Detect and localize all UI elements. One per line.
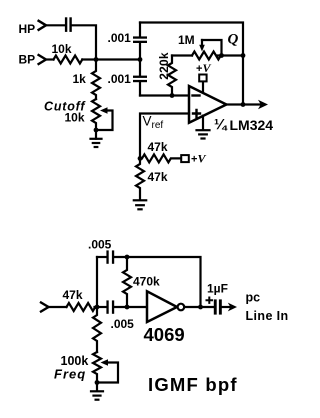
svg-text:1k: 1k	[73, 72, 87, 86]
wire to output arrow	[222, 306, 230, 308]
junction 1M / feedback	[241, 53, 246, 58]
wire top feedback	[114, 257, 200, 307]
resistor 47k (input)	[67, 303, 96, 311]
capacitor .001 (bottom)	[133, 76, 147, 83]
svg-text:Freq: Freq	[54, 367, 86, 382]
svg-text:+: +	[196, 63, 202, 75]
resistor 470k	[123, 257, 131, 307]
svg-text:220k: 220k	[157, 52, 171, 80]
wire inverter output	[185, 306, 214, 308]
node Vref label	[143, 114, 164, 132]
ground (Freq pot)	[91, 391, 103, 399]
ground (divider)	[134, 200, 146, 209]
ground (Cutoff pot)	[91, 139, 102, 147]
potentiometer 100k Freq (lower body to ground)	[93, 352, 101, 390]
resistor 1k	[92, 60, 100, 100]
node pc Line In	[246, 290, 289, 323]
capacitor 1uF (polarized)	[207, 282, 228, 296]
svg-text:IGMF bpf: IGMF bpf	[148, 374, 238, 395]
svg-text:47k: 47k	[63, 288, 83, 302]
capacitor HP series (no value)	[65, 17, 72, 32]
resistor 47k (to ground)	[136, 158, 144, 199]
svg-text:HP: HP	[19, 22, 36, 36]
node HP label	[19, 22, 36, 36]
junction wiper tie	[219, 53, 224, 58]
HP input arrow	[39, 21, 46, 30]
wire to 47k	[49, 306, 67, 308]
svg-text:Q: Q	[228, 32, 239, 48]
svg-text:+: +	[191, 153, 197, 165]
svg-text:Line In: Line In	[246, 309, 289, 323]
capacitor .005 (top, feedback)	[106, 250, 114, 263]
potentiometer 1M	[192, 52, 221, 60]
svg-text:10k: 10k	[65, 111, 85, 125]
wire feedback branch (left vertical)	[96, 257, 98, 307]
node BP label	[19, 53, 36, 67]
wire cap to corner, down to BP node	[72, 25, 96, 59]
wire non-inverting input / Vref	[140, 114, 189, 159]
junction pot bottom	[94, 128, 99, 133]
potentiometer Cutoff 10k	[92, 99, 100, 139]
wire to top cap	[97, 256, 106, 258]
svg-text:.005: .005	[111, 317, 135, 331]
capacitor .005 (bottom, series)	[106, 300, 114, 313]
wiper arrow 1M	[202, 40, 222, 56]
svg-text:V: V	[143, 114, 152, 129]
wire 220k to 1M pot	[172, 54, 192, 56]
ground (op-amp)	[202, 116, 204, 130]
capacitor .001 (top)	[133, 36, 147, 43]
svg-text:.005: .005	[88, 238, 112, 252]
svg-text:¼: ¼	[214, 117, 228, 134]
svg-text:pc: pc	[246, 290, 261, 304]
svg-text:V: V	[203, 61, 212, 75]
svg-text:1µF: 1µF	[207, 282, 228, 296]
inverter U2 4069	[147, 291, 177, 322]
op-amp U1 1/4 LM324	[189, 86, 226, 123]
wire to input junction and cap	[95, 306, 107, 308]
node junction HP/BP	[94, 57, 99, 62]
resistor 220k	[168, 56, 176, 96]
wire caps column	[139, 23, 141, 96]
resistor 10k	[54, 56, 83, 64]
+V supply (divider)	[181, 155, 189, 162]
wiper arrow Cutoff	[96, 111, 113, 131]
junction 220k / inverting input	[170, 93, 175, 98]
wire to input node junction	[82, 58, 140, 60]
svg-text:.001: .001	[108, 72, 132, 86]
svg-text:47k: 47k	[148, 140, 168, 154]
svg-text:V: V	[198, 152, 207, 166]
potentiometer 100k Freq (upper resistor body)	[93, 307, 101, 352]
svg-text:.001: .001	[108, 31, 132, 45]
svg-text:BP: BP	[19, 53, 36, 67]
resistor 47k (to +V)	[142, 154, 181, 162]
input arrow (bottom)	[41, 303, 49, 312]
wire BP to resistor	[46, 58, 54, 60]
wire HP to cap	[46, 24, 65, 26]
svg-text:LM324: LM324	[230, 117, 274, 133]
wire 1M to feedback line	[217, 54, 243, 56]
svg-text:47k: 47k	[148, 170, 168, 184]
svg-text:ref: ref	[152, 120, 164, 131]
wire inverting input	[140, 94, 189, 96]
node junction caps column	[138, 57, 143, 62]
wire cap to inverter input	[114, 306, 147, 308]
svg-text:470k: 470k	[133, 275, 160, 289]
svg-text:10k: 10k	[52, 42, 72, 56]
BP input arrow	[39, 55, 46, 64]
wire top feedback	[140, 23, 243, 105]
+V supply (op-amp)	[202, 82, 204, 93]
wire output + arrow	[226, 103, 260, 105]
title IGMF bpf	[148, 374, 238, 395]
svg-text:1M: 1M	[178, 33, 195, 47]
svg-text:4069: 4069	[144, 324, 185, 345]
wiper arrow Freq	[97, 363, 118, 383]
node Q label	[228, 32, 239, 48]
junction Vref divider	[138, 156, 143, 161]
